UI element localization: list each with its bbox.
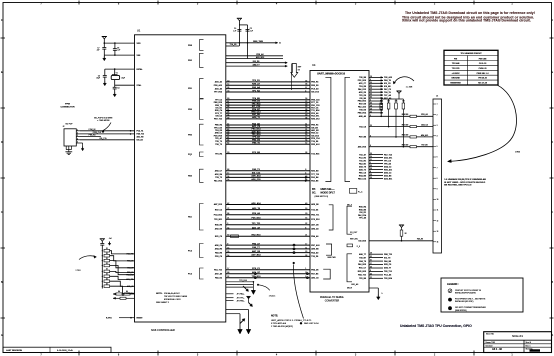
svg-text:R_PD1: R_PD1	[106, 318, 112, 320]
svg-text:PD2_A5: PD2_A5	[311, 112, 318, 115]
svg-text:17: 17	[370, 263, 372, 265]
svg-text:IO3_A0: IO3_A0	[137, 139, 143, 142]
svg-text:+3.3V/5V: +3.3V/5V	[452, 73, 461, 75]
svg-text:.1uF: .1uF	[250, 31, 253, 33]
svg-text:RX7_D9: RX7_D9	[359, 104, 366, 106]
svg-text:RESET: RESET	[137, 317, 144, 319]
svg-text:RESERVED: RESERVED	[450, 83, 461, 85]
svg-text:C4: C4	[117, 87, 119, 89]
svg-text:1.0 UNMARK R5,R6,TP6 IF USB/MI: 1.0 UNMARK R5,R6,TP6 IF USB/MINI-AB	[444, 178, 486, 181]
svg-text:RX4_B0: RX4_B0	[359, 174, 366, 177]
svg-text:TP5_R15: TP5_R15	[252, 103, 262, 105]
svg-text:PB7_A9: PB7_A9	[384, 97, 391, 100]
svg-text:PB8_D5: PB8_D5	[252, 101, 261, 103]
svg-text:RX8_C4: RX8_C4	[215, 109, 223, 112]
svg-text:AN8_C5: AN8_C5	[215, 132, 222, 135]
svg-text:20: 20	[370, 82, 372, 84]
svg-text:TX3_A7: TX3_A7	[359, 153, 366, 156]
svg-text:20: 20	[370, 94, 372, 96]
svg-text:19: 19	[227, 131, 229, 133]
svg-text:RX2_R15: RX2_R15	[251, 235, 261, 237]
svg-text:10: 10	[227, 126, 229, 128]
svg-text:IS NOT USED - GPIO COUNTS SHOU: IS NOT USED - GPIO COUNTS SHOULD	[444, 182, 485, 184]
svg-text:PB4_D5: PB4_D5	[311, 268, 318, 271]
svg-text:CONVERTER: CONVERTER	[325, 301, 340, 303]
svg-text:PA8_T7: PA8_T7	[252, 246, 260, 249]
svg-text:22pF: 22pF	[96, 78, 100, 80]
svg-text:AD8_A14: AD8_A14	[251, 175, 261, 178]
svg-text:AD1_C0: AD1_C0	[252, 125, 261, 128]
svg-text:RES_TMS: RES_TMS	[253, 41, 263, 43]
svg-text:TX8_B14: TX8_B14	[384, 277, 393, 280]
svg-text:1: 1	[305, 268, 306, 270]
svg-text:TX2_D3: TX2_D3	[311, 209, 318, 211]
svg-text:PA3_A4: PA3_A4	[252, 86, 261, 89]
svg-text:AN4_R6: AN4_R6	[215, 248, 222, 251]
svg-text:TX7_A6: TX7_A6	[384, 94, 391, 97]
svg-text:TP4_B5: TP4_B5	[252, 97, 260, 100]
svg-text:Rev: 1: Rev: 1	[526, 345, 531, 347]
svg-text:PB5_R1: PB5_R1	[311, 125, 318, 127]
svg-text:IO2_T9: IO2_T9	[384, 257, 390, 259]
svg-text:IO9_C4: IO9_C4	[215, 115, 222, 118]
svg-text:RX3_B0: RX3_B0	[311, 171, 318, 173]
svg-text:PIN 44,45,46 N.C.: PIN 44,45,46 N.C.	[164, 293, 181, 295]
svg-text:AD0_B11: AD0_B11	[251, 130, 261, 133]
svg-text:AD4_C4: AD4_C4	[421, 124, 428, 127]
svg-text:AD3_T8: AD3_T8	[252, 207, 261, 210]
svg-text:PD9_C14: PD9_C14	[311, 137, 320, 140]
svg-text:PB5_R1: PB5_R1	[311, 82, 318, 84]
svg-text:PPM: PPM	[65, 103, 70, 105]
svg-text:GND PWR: GND PWR	[327, 257, 336, 259]
svg-text:RX7_C2: RX7_C2	[215, 209, 222, 211]
svg-text:AD9_T1: AD9_T1	[252, 116, 261, 119]
svg-text:RX9_A11: RX9_A11	[384, 168, 392, 171]
svg-text:TX2_R15: TX2_R15	[311, 153, 319, 155]
svg-text:AD2_A6: AD2_A6	[215, 87, 222, 90]
svg-text:TP7_R14: TP7_R14	[214, 91, 223, 94]
svg-text:TX9_R0: TX9_R0	[311, 141, 318, 143]
svg-text:CONNECTOR: CONNECTOR	[60, 107, 74, 109]
svg-text:15: 15	[227, 247, 229, 249]
svg-text:22: 22	[370, 277, 372, 279]
svg-text:PA3_B8: PA3_B8	[311, 179, 318, 182]
svg-text:PA7_B5: PA7_B5	[311, 272, 318, 275]
svg-text:9: 9	[227, 244, 228, 246]
svg-text:PA8_B5: PA8_B5	[384, 260, 391, 263]
svg-text:PA5_T13: PA5_T13	[358, 274, 366, 277]
svg-text:PD9_A12: PD9_A12	[214, 84, 222, 87]
svg-text:Y1: Y1	[116, 73, 118, 75]
svg-text:BYPASS ALL VDD: BYPASS ALL VDD	[164, 298, 181, 301]
svg-text:MCLR: MCLR	[347, 288, 353, 290]
svg-text:Unlabeled TMS JTAG TPU Conne: Unlabeled TMS JTAG TPU Connection, GPIO	[400, 324, 472, 328]
svg-text:PB6_D1: PB6_D1	[127, 261, 133, 263]
svg-text:9: 9	[437, 189, 438, 191]
svg-text:10K: 10K	[395, 101, 398, 103]
svg-text:11: 11	[305, 247, 307, 249]
svg-text:TX6_A15: TX6_A15	[384, 76, 392, 79]
svg-text:C3: C3	[98, 75, 100, 77]
svg-text:IO5_C13: IO5_C13	[252, 172, 261, 174]
svg-text:AN3_C5: AN3_C5	[311, 276, 318, 279]
svg-text:8: 8	[370, 270, 371, 272]
svg-text:PB7_T12: PB7_T12	[214, 119, 222, 121]
svg-text:PC4_T4: PC4_T4	[137, 130, 144, 133]
svg-text:R20 330: R20 330	[402, 114, 408, 116]
svg-text:.1uF: .1uF	[233, 31, 236, 33]
svg-text:30: 30	[370, 97, 372, 99]
svg-text:23: 23	[305, 251, 307, 253]
svg-text:CH16..31: CH16..31	[479, 68, 487, 70]
svg-text:AD6_T3: AD6_T3	[359, 168, 366, 171]
svg-text:PD6_A6: PD6_A6	[252, 212, 261, 215]
svg-text:36: 36	[305, 117, 307, 119]
svg-text:AD6_C4: AD6_C4	[215, 244, 223, 247]
svg-text:25: 25	[370, 111, 372, 113]
svg-text:D: D	[551, 141, 553, 144]
svg-text:PA7_C3: PA7_C3	[384, 88, 391, 91]
svg-text:LAST REVISION: LAST REVISION	[6, 349, 22, 352]
svg-text:RX5_A12: RX5_A12	[311, 143, 319, 146]
svg-text:AD2_R0: AD2_R0	[137, 135, 144, 138]
svg-text:PB1_D14: PB1_D14	[251, 128, 261, 131]
svg-text:28: 28	[370, 168, 372, 170]
svg-text:PB3_D6: PB3_D6	[252, 139, 261, 141]
svg-text:UART_MINI96+DOCK16: UART_MINI96+DOCK16	[317, 73, 346, 76]
svg-text:RX6_D12: RX6_D12	[311, 119, 319, 121]
svg-text:PA1_T12: PA1_T12	[214, 268, 222, 271]
svg-text:PA1_R14: PA1_R14	[214, 179, 223, 182]
svg-text:R5: R5	[126, 291, 128, 293]
svg-text:P_8: P_8	[357, 246, 360, 248]
svg-text:TX8_T12: TX8_T12	[384, 271, 392, 273]
svg-text:PA6_R6: PA6_R6	[417, 238, 423, 241]
svg-text:PC8_A9: PC8_A9	[311, 87, 318, 90]
svg-text:6: 6	[305, 227, 306, 229]
svg-text:M16 CONTROLLER: M16 CONTROLLER	[151, 328, 175, 332]
svg-text:PD8_A2: PD8_A2	[256, 53, 263, 56]
svg-text:PA2_B1: PA2_B1	[359, 162, 366, 165]
svg-text:REF_SEL: REF_SEL	[350, 239, 358, 241]
svg-text:.1uF: .1uF	[117, 50, 120, 52]
svg-text:AN3_C7: AN3_C7	[215, 170, 222, 173]
svg-text:AN1_R15: AN1_R15	[358, 145, 366, 148]
svg-text:PA7_C5: PA7_C5	[311, 107, 318, 110]
svg-text:TX6_T2: TX6_T2	[215, 144, 222, 146]
svg-text:J2: J2	[63, 126, 65, 128]
svg-text:PPM_CLK: PPM_CLK	[93, 132, 102, 134]
svg-text:97: 97	[227, 101, 229, 103]
svg-text:PA8_T7: PA8_T7	[127, 266, 133, 269]
svg-text:RX6_A7: RX6_A7	[252, 83, 261, 86]
svg-text:1: 1	[370, 162, 371, 164]
svg-text:30: 30	[305, 104, 307, 106]
svg-text:U1: U1	[137, 29, 141, 33]
svg-text:MODE DFLT: MODE DFLT	[321, 191, 336, 194]
svg-text:.1uF: .1uF	[96, 50, 99, 52]
svg-text:6: 6	[370, 145, 371, 147]
svg-text:AN5_T7: AN5_T7	[359, 253, 366, 256]
svg-text:IO7_C12: IO7_C12	[252, 106, 261, 108]
svg-text:TP0_D8: TP0_D8	[359, 95, 366, 97]
svg-text:AN2_D11: AN2_D11	[384, 156, 392, 159]
svg-text:JP1 PA4_: JP1 PA4_	[237, 293, 246, 296]
svg-text:C: C	[1, 211, 3, 214]
svg-text:TIE VSS TO GND PLANE: TIE VSS TO GND PLANE	[164, 295, 188, 298]
svg-text:19: 19	[370, 76, 372, 78]
svg-text:14: 14	[227, 255, 229, 257]
svg-text:1: 1	[437, 104, 438, 106]
svg-text:28: 28	[370, 174, 372, 176]
svg-text:7: 7	[437, 167, 438, 169]
svg-text:AN8_A6: AN8_A6	[359, 115, 366, 118]
svg-text:PC2_A6: PC2_A6	[384, 274, 391, 277]
svg-text:14: 14	[227, 227, 229, 229]
svg-text:PIN 29-30: PIN 29-30	[478, 78, 487, 80]
svg-text:IO5_B6: IO5_B6	[359, 98, 366, 100]
svg-text:JP2 TP5_: JP2 TP5_	[237, 297, 246, 299]
svg-text:AD7_D0: AD7_D0	[311, 224, 318, 227]
svg-text:3: 3	[227, 223, 228, 225]
svg-text:TP7_C2: TP7_C2	[215, 99, 222, 101]
svg-text:AD7_B14: AD7_B14	[251, 254, 261, 257]
svg-text:XTAL: XTAL	[137, 84, 143, 87]
svg-text:IO2_B15: IO2_B15	[358, 241, 366, 243]
svg-text:6-10-2009_12:45: 6-10-2009_12:45	[57, 350, 74, 352]
svg-text:IO3_D13: IO3_D13	[311, 92, 319, 94]
svg-text:PD7_B8: PD7_B8	[359, 137, 366, 139]
svg-text:15: 15	[305, 218, 307, 220]
svg-text:(SEE NOTES): (SEE NOTES)	[455, 310, 467, 312]
svg-text:TP1_T11: TP1_T11	[252, 223, 261, 225]
svg-text:TPU HEADER PINOUT: TPU HEADER PINOUT	[460, 52, 482, 55]
svg-text:AN4_A5: AN4_A5	[311, 228, 318, 231]
svg-text:19: 19	[305, 114, 307, 116]
svg-text:PB9_C15: PB9_C15	[311, 99, 319, 101]
svg-text:PD4_B7: PD4_B7	[252, 108, 261, 111]
svg-text:1 Kohm: 1 Kohm	[269, 296, 276, 298]
svg-text:PA9_T6: PA9_T6	[384, 79, 391, 82]
svg-text:INSTALLED/POPULATED: INSTALLED/POPULATED	[455, 291, 477, 294]
svg-text:25: 25	[305, 112, 307, 114]
svg-text:PARALLEL TO SERIAL: PARALLEL TO SERIAL	[320, 296, 345, 299]
svg-text:TP6_B11: TP6_B11	[214, 219, 222, 221]
svg-text:Sheet Title: Sheet Title	[486, 333, 494, 336]
svg-text:TX3_C6: TX3_C6	[359, 126, 366, 128]
svg-text:82: 82	[227, 134, 229, 136]
svg-text:FOOTPRINT ONLY - NO PARTS: FOOTPRINT ONLY - NO PARTS	[455, 298, 486, 301]
svg-text:TX8_B7: TX8_B7	[359, 257, 366, 259]
svg-text:AN6_T7: AN6_T7	[384, 267, 391, 270]
svg-text:PAD LIST 8-14: PAD LIST 8-14	[304, 322, 319, 325]
svg-text:2: 2	[437, 114, 438, 116]
svg-text:(SEE NOTE 3): (SEE NOTE 3)	[315, 196, 329, 198]
svg-text:AD1_A7: AD1_A7	[252, 226, 261, 229]
svg-text:PA2_T11: PA2_T11	[127, 253, 134, 256]
svg-text:RX0_R3: RX0_R3	[311, 85, 318, 87]
svg-text:13: 13	[305, 208, 307, 210]
svg-text:32: 32	[227, 276, 229, 278]
svg-text:1 TBD 48-PIN (MQFP): 1 TBD 48-PIN (MQFP)	[271, 326, 293, 328]
svg-text:TP7_T13: TP7_T13	[311, 174, 319, 176]
svg-text:5: 5	[370, 100, 371, 102]
svg-text:17: 17	[305, 137, 307, 139]
svg-text:22pF: 22pF	[121, 77, 125, 79]
svg-text:TP1_C0: TP1_C0	[384, 160, 391, 162]
svg-text:FL_C: FL_C	[358, 191, 363, 193]
svg-text:PA2_D14: PA2_D14	[358, 214, 367, 217]
svg-text:AD0_A14: AD0_A14	[251, 202, 261, 205]
svg-text:17: 17	[227, 173, 229, 175]
svg-text:CH 0..15: CH 0..15	[479, 63, 486, 65]
svg-text:8: 8	[437, 178, 438, 180]
svg-text:15: 15	[305, 134, 307, 136]
svg-text:Drawn: T.BD: Drawn: T.BD	[486, 341, 496, 344]
svg-text:40: 40	[305, 203, 307, 205]
svg-text:RX5_C9: RX5_C9	[384, 264, 391, 266]
svg-text:10K: 10K	[380, 101, 383, 103]
svg-text:Size: B: Size: B	[526, 342, 532, 344]
svg-text:AN1_B12: AN1_B12	[256, 56, 264, 59]
svg-text:AD2_R4: AD2_R4	[215, 173, 223, 176]
svg-text:1 TPU: 1 TPU	[75, 270, 81, 272]
svg-text:36: 36	[305, 84, 307, 86]
svg-text:35: 35	[305, 80, 307, 82]
svg-text:26: 26	[305, 109, 307, 111]
svg-text:8: 8	[370, 135, 371, 137]
svg-text:29: 29	[370, 105, 372, 107]
svg-text:PA6_D13: PA6_D13	[358, 88, 366, 91]
svg-text:RX1_C7: RX1_C7	[359, 268, 366, 270]
svg-text:16: 16	[305, 98, 307, 100]
svg-text:AD9_R6: AD9_R6	[311, 203, 318, 206]
svg-text:IO2_C8: IO2_C8	[384, 83, 391, 85]
svg-text:TP1_A5: TP1_A5	[359, 217, 366, 220]
svg-text:R4: R4	[118, 291, 120, 293]
svg-text:PB1_C15: PB1_C15	[311, 105, 319, 107]
svg-text:PWR SEL 1-2: PWR SEL 1-2	[477, 73, 489, 75]
svg-text:PD3_R15: PD3_R15	[214, 135, 222, 137]
svg-text:33: 33	[370, 103, 372, 105]
svg-text:TP5_A7: TP5_A7	[215, 137, 222, 140]
svg-text:PA4_A0: PA4_A0	[311, 251, 318, 254]
svg-text:R6: R6	[122, 295, 124, 297]
svg-text:10: 10	[227, 80, 229, 82]
svg-text:6: 6	[437, 157, 438, 159]
svg-text:AN4_C2: AN4_C2	[384, 165, 391, 168]
svg-text:PC2_B0: PC2_B0	[252, 152, 261, 154]
svg-text:R22 330: R22 330	[402, 135, 408, 137]
svg-text:1 W30: 1 W30	[515, 151, 520, 153]
svg-text:AN7_A8: AN7_A8	[215, 272, 222, 275]
svg-text:20: 20	[227, 152, 229, 154]
svg-text:AN1_B3: AN1_B3	[311, 129, 318, 132]
svg-text:PC4_B14: PC4_B14	[214, 213, 223, 216]
svg-text:PB7_A10: PB7_A10	[311, 244, 319, 247]
svg-text:JP3 PB0_: JP3 PB0_	[237, 300, 246, 302]
svg-text:24: 24	[227, 176, 229, 178]
svg-text:PB0_T9: PB0_T9	[215, 105, 222, 107]
svg-text:17: 17	[305, 244, 307, 246]
svg-text:TX9_T3: TX9_T3	[215, 177, 222, 179]
svg-text:AN2_D8: AN2_D8	[215, 228, 222, 231]
svg-text:25: 25	[370, 156, 372, 158]
svg-text:34: 34	[227, 114, 229, 116]
svg-text:29: 29	[370, 253, 372, 255]
svg-text:LEGEND :: LEGEND :	[447, 283, 459, 286]
svg-text:13: 13	[437, 231, 439, 233]
svg-text:PC7_D1: PC7_D1	[311, 102, 318, 104]
svg-text:PA8_C14: PA8_C14	[358, 177, 367, 180]
svg-text:INSTALLED (NO POP): INSTALLED (NO POP)	[455, 300, 474, 303]
svg-text:20: 20	[370, 125, 372, 127]
svg-text:AN4_T7: AN4_T7	[252, 63, 259, 66]
svg-text:5: 5	[370, 79, 371, 81]
svg-text:86: 86	[227, 106, 229, 108]
svg-text:TX4_R6: TX4_R6	[230, 44, 237, 46]
svg-text:90: 90	[227, 98, 229, 100]
svg-text:PB0_R4: PB0_R4	[215, 124, 223, 127]
svg-text:TPU A/B: TPU A/B	[452, 62, 460, 65]
svg-text:AN0_B6: AN0_B6	[311, 248, 318, 251]
svg-text:R21 330: R21 330	[402, 124, 408, 126]
svg-text:GROUND: GROUND	[451, 78, 460, 80]
svg-text:27: 27	[305, 87, 307, 89]
svg-text:61: 61	[227, 137, 229, 139]
svg-text:REF: REF	[298, 67, 301, 69]
svg-text:23: 23	[305, 106, 307, 108]
svg-text:A3 2 · 48: A3 2 · 48	[492, 348, 503, 351]
svg-text:IO3_B12: IO3_B12	[311, 135, 319, 137]
svg-text:46: 46	[227, 112, 229, 114]
svg-text:44: 44	[227, 140, 229, 142]
svg-text:AD4_A11: AD4_A11	[421, 134, 428, 137]
svg-text:AD0_C15: AD0_C15	[251, 178, 261, 181]
svg-text:22: 22	[305, 223, 307, 225]
svg-text:10K: 10K	[387, 101, 390, 103]
svg-text:C: C	[551, 211, 553, 214]
svg-text:TP3_R10: TP3_R10	[252, 134, 262, 136]
svg-text:IO6_C15: IO6_C15	[99, 138, 106, 140]
svg-text:86: 86	[227, 213, 229, 215]
svg-text:PB4_B12: PB4_B12	[358, 100, 366, 103]
svg-text:EXTAL: EXTAL	[137, 68, 144, 71]
svg-text:TPU C/D: TPU C/D	[452, 68, 460, 70]
svg-text:31: 31	[370, 85, 372, 87]
svg-text:C2: C2	[250, 28, 252, 30]
svg-text:PA0_T3: PA0_T3	[252, 168, 260, 171]
svg-text:IO9_B0: IO9_B0	[384, 86, 391, 88]
svg-text:18: 18	[370, 108, 372, 110]
svg-text:42: 42	[227, 203, 229, 205]
svg-text:PC6_R12: PC6_R12	[311, 219, 319, 221]
svg-text:AN7_R5: AN7_R5	[252, 250, 261, 253]
svg-text:PB8_R10: PB8_R10	[214, 102, 222, 104]
svg-text:PA3_A6: PA3_A6	[252, 122, 261, 125]
svg-text:The Unlabeled TMS JTAG Downloa: The Unlabeled TMS JTAG Download circuit …	[405, 11, 535, 15]
svg-text:NO POP: NO POP	[66, 123, 74, 125]
svg-text:PB0_T13: PB0_T13	[384, 254, 392, 256]
svg-text:TX1_B14: TX1_B14	[311, 109, 320, 112]
svg-text:PD3_A2: PD3_A2	[421, 113, 427, 116]
svg-text:TX4_T9: TX4_T9	[384, 91, 391, 94]
svg-text:73: 73	[227, 90, 229, 92]
svg-text:AD1_T15: AD1_T15	[126, 278, 133, 281]
svg-text:AD1_C7: AD1_C7	[359, 82, 366, 85]
svg-text:PA2_D11: PA2_D11	[311, 115, 319, 118]
